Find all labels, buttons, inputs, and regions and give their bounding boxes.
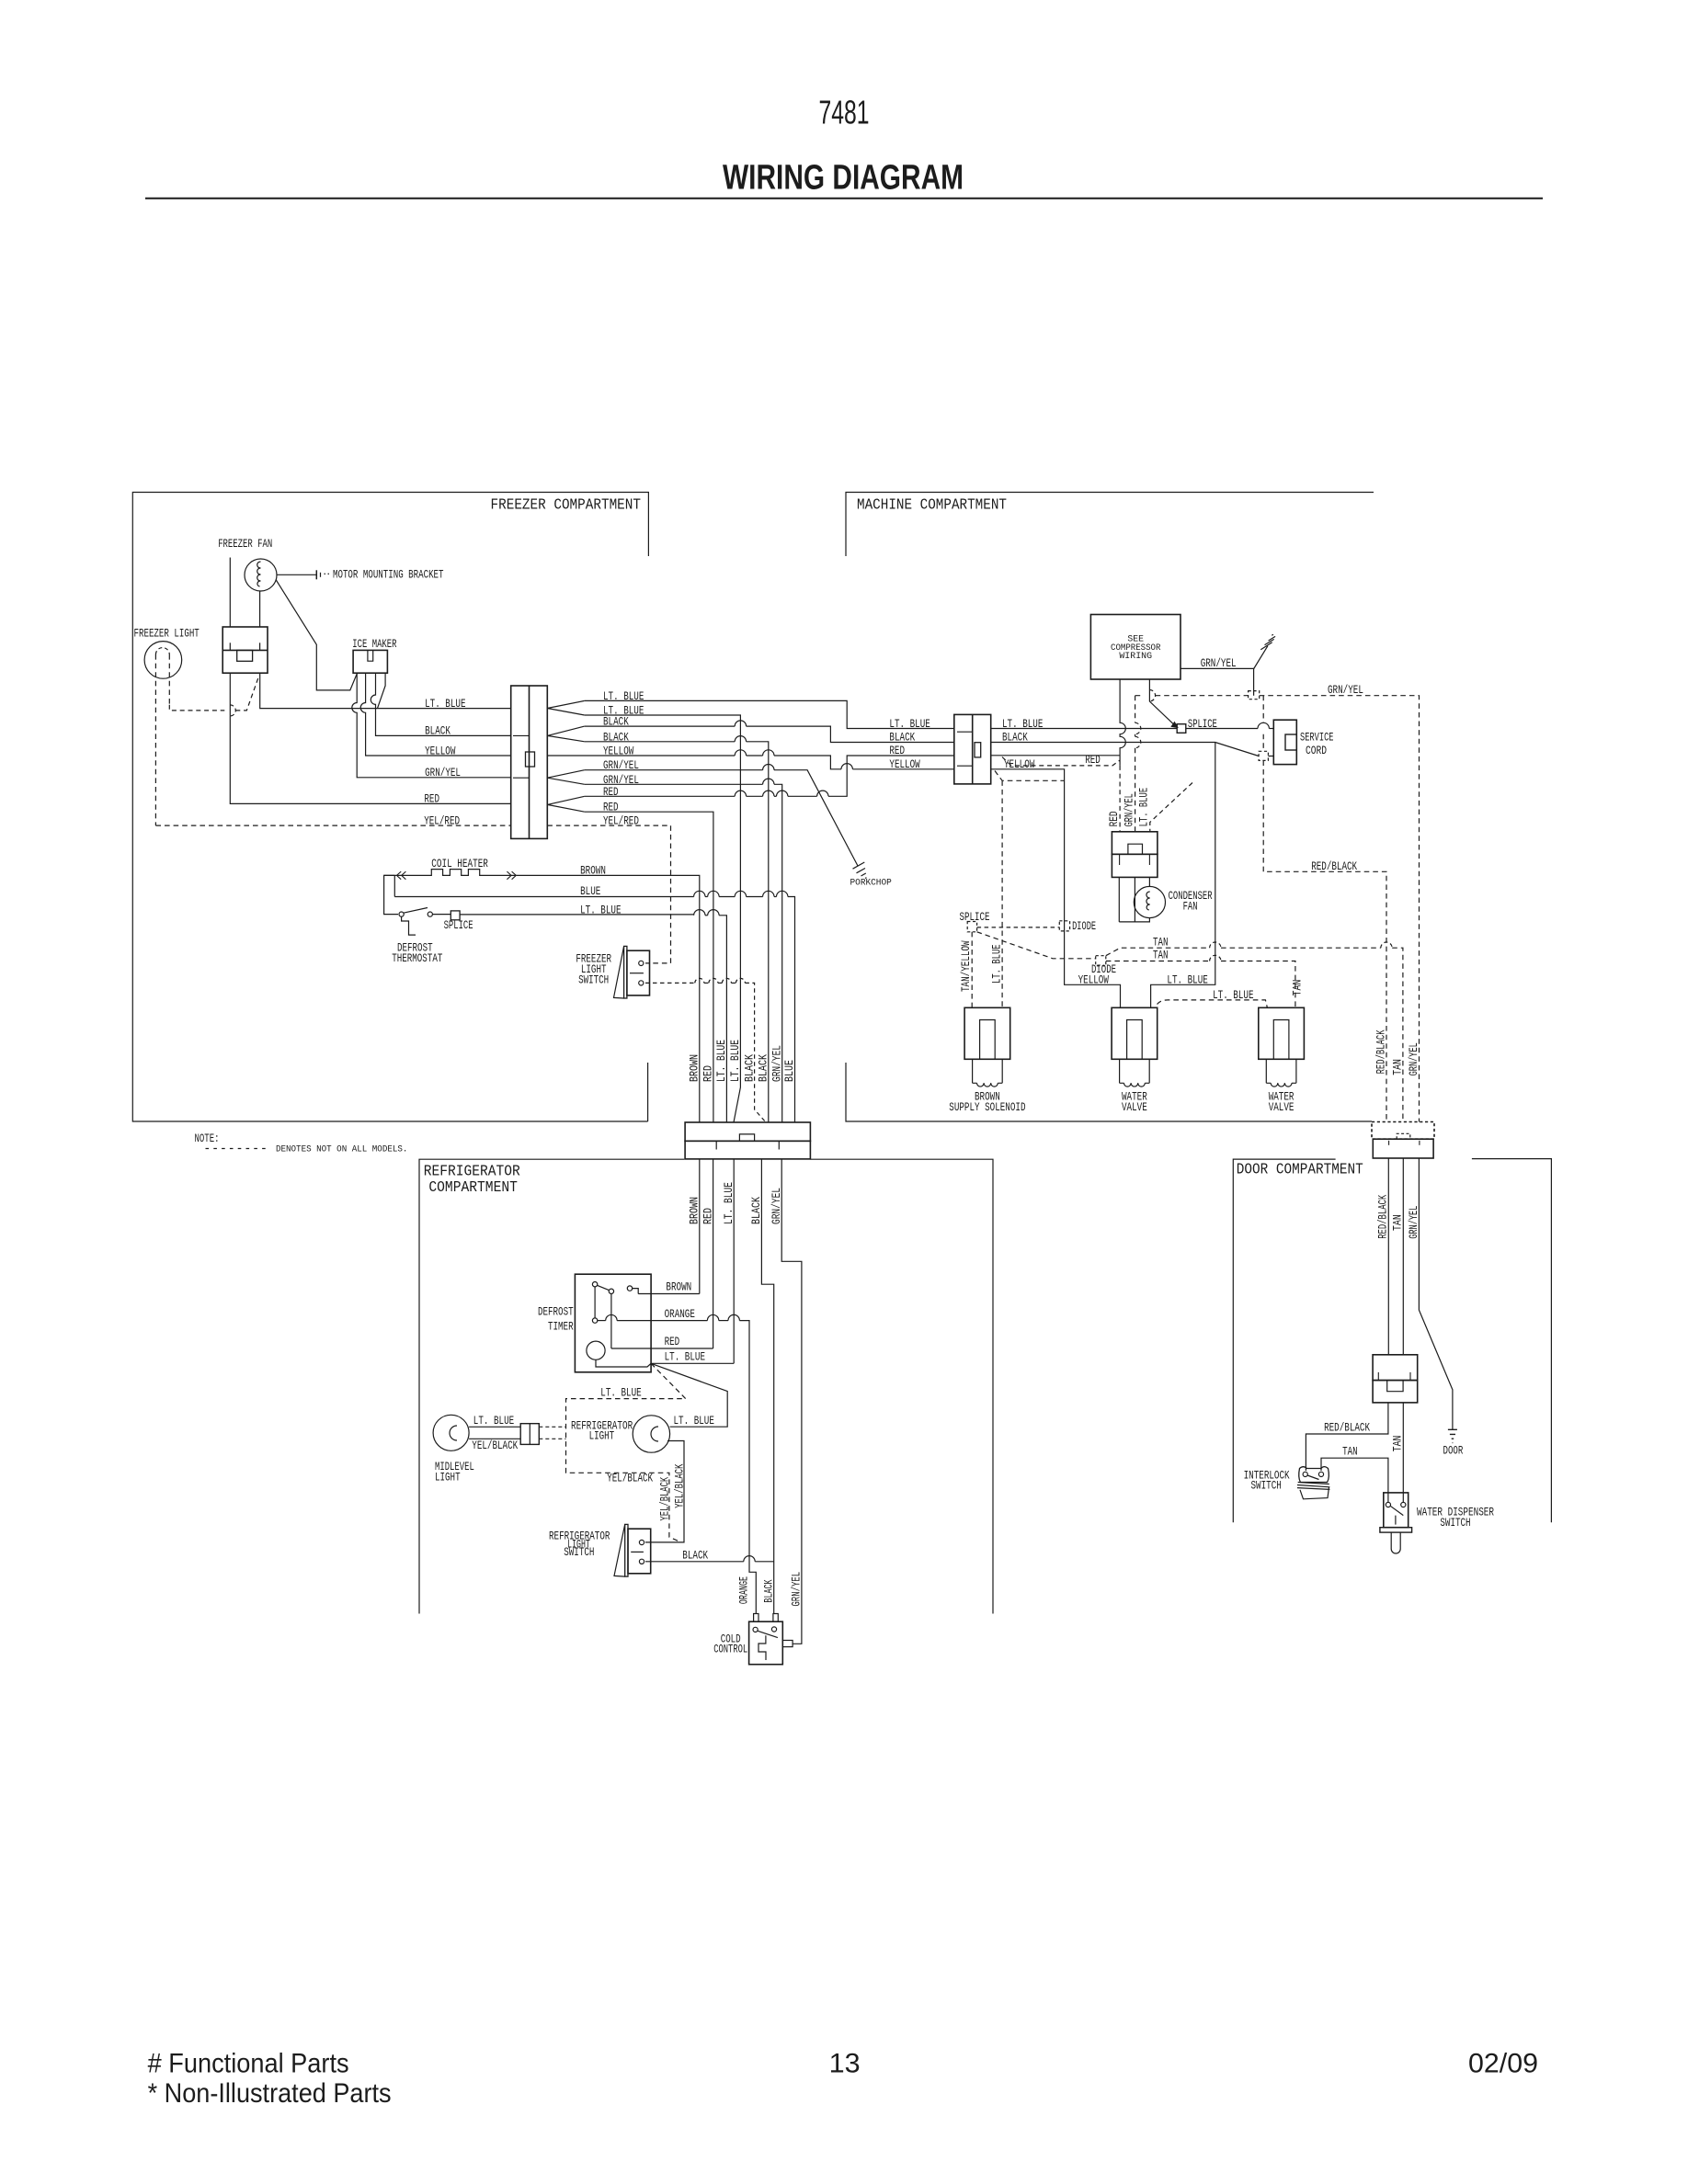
midlevel light xyxy=(433,1415,469,1450)
wire BLACK dashed from switch to bundle xyxy=(645,982,694,984)
wire GRN/YEL dashed compressor to block xyxy=(1135,696,1136,832)
grn/yel junction dashed square xyxy=(1249,691,1260,700)
splice dashed square left xyxy=(967,922,976,932)
refrigerator light switch xyxy=(625,1524,628,1576)
svg-text:FAN: FAN xyxy=(1183,901,1198,914)
svg-text:LT. BLUE: LT. BLUE xyxy=(473,1415,514,1428)
freezer light bulb xyxy=(144,642,182,679)
wire ice maker pin1 to GRN/YEL xyxy=(352,673,511,778)
wire GRN/YEL to door ground xyxy=(1419,1158,1453,1429)
svg-text:BROWN: BROWN xyxy=(666,1281,691,1294)
wire GRN/YEL below connector xyxy=(781,1159,802,1644)
wire dashed diagonal to midlevel circuit xyxy=(566,1363,686,1542)
svg-text:NOTE:: NOTE: xyxy=(195,1132,220,1145)
svg-text:02/09: 02/09 xyxy=(1468,2048,1538,2078)
svg-text:YEL/BLACK: YEL/BLACK xyxy=(658,1476,671,1520)
svg-text:BROWN: BROWN xyxy=(689,1054,701,1082)
svg-text:LT. BLUE: LT. BLUE xyxy=(1167,973,1207,986)
wire RED1 to machine connector xyxy=(585,795,735,797)
svg-text:BLUE: BLUE xyxy=(783,1060,796,1082)
svg-text:YELLOW: YELLOW xyxy=(425,745,456,757)
water valve 2 xyxy=(1259,1007,1305,1059)
defrost thermostat capillary xyxy=(402,916,416,935)
condenser fan xyxy=(1148,877,1150,886)
wire dashes midlevel to vertical xyxy=(539,1426,565,1428)
wire RED/BLACK to interlock switch xyxy=(1306,1403,1388,1471)
svg-text:13: 13 xyxy=(829,2048,861,2078)
splice square xyxy=(451,911,460,920)
wire dashed to brown solenoid LT.BLUE xyxy=(995,771,1065,1008)
wire RED timer output xyxy=(611,1348,713,1349)
wire BLACK below connector xyxy=(761,1159,773,1614)
refrigerator compartment border xyxy=(419,1159,993,1613)
wire BLACK2 down to bundle xyxy=(585,741,735,743)
wire TAN1 dashed to door xyxy=(1106,948,1210,956)
wire GRN/YEL from compressor box xyxy=(1180,668,1254,695)
svg-text:LT. BLUE: LT. BLUE xyxy=(889,718,930,731)
svg-text:GRN/YEL: GRN/YEL xyxy=(770,1045,783,1082)
svg-text:MOTOR MOUNTING BRACKET: MOTOR MOUNTING BRACKET xyxy=(333,569,444,582)
svg-text:# Functional Parts: # Functional Parts xyxy=(148,2048,349,2078)
svg-text:LT. BLUE: LT. BLUE xyxy=(580,904,621,917)
wire ORANGE timer output xyxy=(598,1320,606,1322)
svg-text:TAN: TAN xyxy=(1342,1446,1358,1459)
svg-text:FREEZER FAN: FREEZER FAN xyxy=(218,538,272,551)
wire BROWN below connector xyxy=(699,1159,701,1294)
svg-text:VALVE: VALVE xyxy=(1122,1101,1147,1114)
wire TAN2 dashed to water valve 3 xyxy=(1106,961,1210,962)
svg-text:RED: RED xyxy=(665,1336,680,1348)
svg-text:FREEZER LIGHT: FREEZER LIGHT xyxy=(134,627,200,640)
door compartment border xyxy=(1233,1159,1551,1523)
svg-text:RED: RED xyxy=(424,793,439,806)
wire BLACK to service cord xyxy=(991,743,1274,756)
svg-text:ICE MAKER: ICE MAKER xyxy=(352,638,397,651)
svg-text:LT. BLUE: LT. BLUE xyxy=(991,944,1004,984)
wire LT.BLUE to splice and service cord xyxy=(991,728,1258,730)
water valve 1 xyxy=(1112,1007,1158,1059)
svg-text:TAN: TAN xyxy=(1392,1436,1405,1452)
wire refrigerator light YEL/BLACK solid xyxy=(645,1441,684,1542)
compressor terminal block xyxy=(1112,832,1158,855)
svg-text:GRN/YEL: GRN/YEL xyxy=(425,767,461,779)
machine compartment connector xyxy=(954,714,991,784)
wire RED/BLACK dashed tap xyxy=(1263,696,1386,1122)
wire ice maker pin3 to BLACK xyxy=(371,673,510,735)
midlevel connector xyxy=(520,1424,539,1445)
svg-text:LT. BLUE: LT. BLUE xyxy=(715,1040,728,1082)
svg-text:TAN/YELLOW: TAN/YELLOW xyxy=(960,940,973,992)
svg-text:SWITCH: SWITCH xyxy=(564,1546,594,1559)
machine compartment border xyxy=(846,493,1374,1122)
wire RED2 down to bundle xyxy=(585,812,713,1122)
svg-text:BLACK: BLACK xyxy=(743,1054,756,1082)
svg-text:GRN/YEL: GRN/YEL xyxy=(770,1188,783,1224)
svg-text:SPLICE: SPLICE xyxy=(444,919,473,932)
svg-text:RED: RED xyxy=(1108,811,1121,826)
wire compressor terminal RED vertical xyxy=(1120,679,1125,766)
freezer light switch xyxy=(624,946,627,998)
svg-text:BROWN: BROWN xyxy=(689,1197,701,1224)
svg-text:TAN: TAN xyxy=(1153,950,1169,962)
svg-text:ORANGE: ORANGE xyxy=(665,1308,695,1321)
svg-text:SWITCH: SWITCH xyxy=(1251,1480,1282,1493)
svg-text:SPLICE: SPLICE xyxy=(1188,718,1217,731)
svg-text:THERMOSTAT: THERMOSTAT xyxy=(392,952,443,965)
brown supply solenoid xyxy=(964,1007,1010,1059)
wire GRN/YEL2 down to bundle xyxy=(585,783,763,785)
wire fan to ice maker diagonal xyxy=(276,580,357,690)
wire ice maker pin4 to LT.BLUE xyxy=(378,673,386,708)
wire TAN in door xyxy=(1402,1158,1404,1355)
splice square xyxy=(1177,724,1186,734)
wire fork RED pair xyxy=(547,796,585,812)
svg-text:GRN/YEL: GRN/YEL xyxy=(1328,684,1363,697)
wire block to LT.BLUE feed xyxy=(260,673,511,708)
svg-text:RED/BLACK: RED/BLACK xyxy=(1377,1194,1390,1238)
svg-text:GRN/YEL: GRN/YEL xyxy=(1408,1206,1420,1239)
wire fork LT.BLUE pair xyxy=(547,700,585,715)
svg-text:WIRING: WIRING xyxy=(1119,651,1152,662)
ice maker xyxy=(353,650,387,673)
svg-text:VALVE: VALVE xyxy=(1269,1101,1295,1114)
wire LT.BLUE below connector xyxy=(733,1159,735,1363)
wire BLUE to bundle xyxy=(394,896,693,898)
svg-text:LT. BLUE: LT. BLUE xyxy=(729,1040,742,1082)
svg-text:LT. BLUE: LT. BLUE xyxy=(425,698,465,711)
svg-text:TAN: TAN xyxy=(1392,1214,1405,1231)
wire BLACK1 to machine connector xyxy=(585,725,735,727)
wire GRN/YEL1 to porkchop xyxy=(585,769,763,771)
svg-text:DOOR: DOOR xyxy=(1443,1445,1464,1458)
defrost timer xyxy=(575,1274,651,1372)
svg-text:BLACK: BLACK xyxy=(425,725,451,738)
svg-text:BLUE: BLUE xyxy=(580,885,600,898)
ground symbol xyxy=(1253,646,1268,669)
svg-text:CONTROL: CONTROL xyxy=(713,1643,747,1655)
defrost timer contacts xyxy=(592,1282,597,1287)
svg-text:PORKCHOP: PORKCHOP xyxy=(850,878,892,888)
svg-text:RED/BLACK: RED/BLACK xyxy=(1311,860,1357,873)
splice dashed square at service cord xyxy=(1259,751,1268,760)
coil heater element xyxy=(384,870,517,876)
wire TAN to water dispenser switch xyxy=(1402,1403,1404,1503)
svg-text:RED: RED xyxy=(1085,754,1101,767)
svg-text:DIODE: DIODE xyxy=(1072,920,1096,933)
svg-text:LT. BLUE: LT. BLUE xyxy=(1137,788,1150,827)
svg-text:LT. BLUE: LT. BLUE xyxy=(674,1415,714,1428)
svg-text:GRN/YEL: GRN/YEL xyxy=(1408,1042,1420,1075)
wire TAN/YELLOW dashed to solenoid xyxy=(971,932,973,1008)
svg-text:BROWN: BROWN xyxy=(580,865,606,878)
svg-text:GRN/YEL: GRN/YEL xyxy=(791,1572,804,1607)
wire BLACK from switch xyxy=(645,1561,744,1563)
svg-text:GRN/YEL: GRN/YEL xyxy=(1201,657,1237,670)
svg-text:DIODE: DIODE xyxy=(1091,963,1116,976)
wire solid diagonal to refrigerator light xyxy=(651,1363,727,1427)
wire block to RED feed xyxy=(230,673,510,803)
wire heater left drop xyxy=(384,875,398,914)
wire ice maker pin2 to YELLOW xyxy=(360,673,511,756)
wire LT.BLUE dashed to water valve 3 xyxy=(1158,1000,1268,1007)
svg-text:MACHINE COMPARTMENT: MACHINE COMPARTMENT xyxy=(857,497,1007,515)
refrigerator bundle connector xyxy=(685,1122,810,1141)
wire midlevel YEL/BLACK xyxy=(469,1438,520,1439)
svg-text:TAN: TAN xyxy=(1292,980,1305,996)
wire LT.BLUE defrost to bundle xyxy=(432,914,693,916)
wire YELLOW down to diode and water valve xyxy=(991,769,1121,1008)
svg-text:LIGHT: LIGHT xyxy=(435,1472,461,1484)
svg-text:TAN: TAN xyxy=(1391,1059,1404,1075)
svg-text:COMPARTMENT: COMPARTMENT xyxy=(428,1179,518,1197)
freezer light connector block xyxy=(222,627,268,673)
svg-text:SWITCH: SWITCH xyxy=(1440,1517,1470,1530)
svg-text:7481: 7481 xyxy=(819,94,870,131)
svg-text:RED: RED xyxy=(889,745,905,757)
wire LT.BLUE compressor to splice diagonal xyxy=(1149,679,1173,724)
svg-text:FREEZER COMPARTMENT: FREEZER COMPARTMENT xyxy=(491,497,642,515)
freezer compartment border xyxy=(132,493,648,1122)
svg-text:YEL/BLACK: YEL/BLACK xyxy=(607,1473,653,1485)
svg-text:DEFROST: DEFROST xyxy=(538,1306,574,1319)
interlock switch xyxy=(1299,1467,1329,1483)
svg-text:YELLOW: YELLOW xyxy=(889,758,920,771)
wire splice to diode dashed xyxy=(977,927,1060,928)
motor mounting bracket xyxy=(277,574,316,575)
wire LT.BLUE solid to water valve 2 xyxy=(1151,743,1215,1008)
svg-text:LT. BLUE: LT. BLUE xyxy=(1213,989,1253,1002)
service cord xyxy=(1273,720,1296,764)
svg-text:DENOTES NOT ON ALL MODELS.: DENOTES NOT ON ALL MODELS. xyxy=(276,1144,407,1155)
freezer compartment connector xyxy=(511,686,548,838)
wire YELLOW to machine connector xyxy=(547,755,735,756)
wire midlevel LT.BLUE xyxy=(469,1426,520,1428)
svg-text:RED: RED xyxy=(701,1208,714,1224)
wire BROWN timer output xyxy=(638,1293,700,1295)
svg-text:RED/BLACK: RED/BLACK xyxy=(1324,1422,1370,1435)
svg-text:YEL/RED: YEL/RED xyxy=(424,814,460,827)
svg-text:RED: RED xyxy=(702,1065,715,1082)
svg-text:SUPPLY SOLENOID: SUPPLY SOLENOID xyxy=(949,1101,1025,1114)
svg-text:BLACK: BLACK xyxy=(682,1549,708,1562)
svg-text:DOOR COMPARTMENT: DOOR COMPARTMENT xyxy=(1237,1161,1363,1178)
svg-text:TAN: TAN xyxy=(1153,936,1169,949)
svg-text:SWITCH: SWITCH xyxy=(578,974,609,987)
cold control terminals xyxy=(754,1614,758,1622)
svg-text:RED/BLACK: RED/BLACK xyxy=(1374,1029,1387,1074)
svg-text:BLACK: BLACK xyxy=(750,1197,763,1224)
svg-text:BLACK: BLACK xyxy=(758,1054,770,1082)
wire LT.BLUE timer output xyxy=(651,1362,734,1364)
svg-text:LT. BLUE: LT. BLUE xyxy=(723,1182,736,1224)
wire RED/BLACK in door xyxy=(1387,1158,1389,1355)
door ground xyxy=(1448,1429,1457,1442)
wire LT.BLUE dashed into terminal block xyxy=(1150,783,1192,832)
see compressor wiring box xyxy=(1090,615,1180,680)
cold control xyxy=(749,1621,783,1665)
wire LT.BLUE2 down to bundle xyxy=(585,715,741,1122)
svg-text:CORD: CORD xyxy=(1306,745,1327,757)
wire YEL/RED dashed through connector to freezer light switch xyxy=(547,825,670,963)
water dispenser switch xyxy=(1384,1493,1409,1528)
svg-text:COIL HEATER: COIL HEATER xyxy=(431,858,488,870)
defrost thermostat contacts xyxy=(399,912,404,916)
door bundle connector xyxy=(1372,1122,1434,1140)
defrost timer motor xyxy=(587,1341,605,1359)
wire GRN/YEL dashed to door xyxy=(1135,696,1420,1122)
svg-text:BLACK: BLACK xyxy=(762,1579,775,1603)
cold control side stub xyxy=(782,1641,793,1647)
wire fan bottom lead xyxy=(259,591,261,627)
wire RED to compressor xyxy=(991,755,1120,756)
svg-text:GRN/YEL: GRN/YEL xyxy=(1123,793,1136,826)
wire freezer light right lead dashed xyxy=(168,654,170,705)
svg-text:LT. BLUE: LT. BLUE xyxy=(665,1351,705,1364)
diode 1 xyxy=(1059,921,1069,931)
svg-text:LT. BLUE: LT. BLUE xyxy=(600,1386,641,1399)
wire freezer light left lead YEL/RED dashed xyxy=(154,654,156,825)
svg-text:YEL/BLACK: YEL/BLACK xyxy=(674,1463,687,1508)
svg-text:* Non-Illustrated Parts: * Non-Illustrated Parts xyxy=(148,2078,392,2109)
svg-text:REFRIGERATOR: REFRIGERATOR xyxy=(424,1164,520,1181)
wire splice diagonal to diode2 line xyxy=(977,932,1096,959)
door connector 2 xyxy=(1373,1355,1418,1381)
svg-text:SPLICE: SPLICE xyxy=(960,911,990,924)
wire RED below connector xyxy=(713,1159,714,1348)
svg-text:LIGHT: LIGHT xyxy=(589,1430,615,1443)
svg-text:BLACK: BLACK xyxy=(889,732,915,745)
wire fork GRN/YEL pair xyxy=(547,770,585,785)
porkchop ground xyxy=(853,862,867,879)
svg-text:YEL/BLACK: YEL/BLACK xyxy=(472,1439,518,1452)
terminal block legs xyxy=(1119,877,1149,922)
svg-text:YEL/RED: YEL/RED xyxy=(603,815,639,828)
svg-text:ORANGE: ORANGE xyxy=(737,1576,750,1604)
wire TAN interlock to dispenser xyxy=(1321,1458,1388,1502)
svg-text:TIMER: TIMER xyxy=(548,1321,574,1334)
svg-text:WIRING DIAGRAM: WIRING DIAGRAM xyxy=(723,159,964,198)
wire BROWN from heater to bundle xyxy=(517,875,700,1122)
svg-text:SERVICE: SERVICE xyxy=(1300,732,1334,745)
title rule xyxy=(145,198,1543,199)
freezer fan motor xyxy=(245,559,277,591)
wire LT.BLUE1 to machine connector xyxy=(585,700,954,728)
refrigerator light bulb xyxy=(633,1416,669,1452)
diode 2 xyxy=(1096,956,1106,966)
wire fan left lead xyxy=(229,558,231,628)
wire fork BLACK pair xyxy=(547,726,585,742)
